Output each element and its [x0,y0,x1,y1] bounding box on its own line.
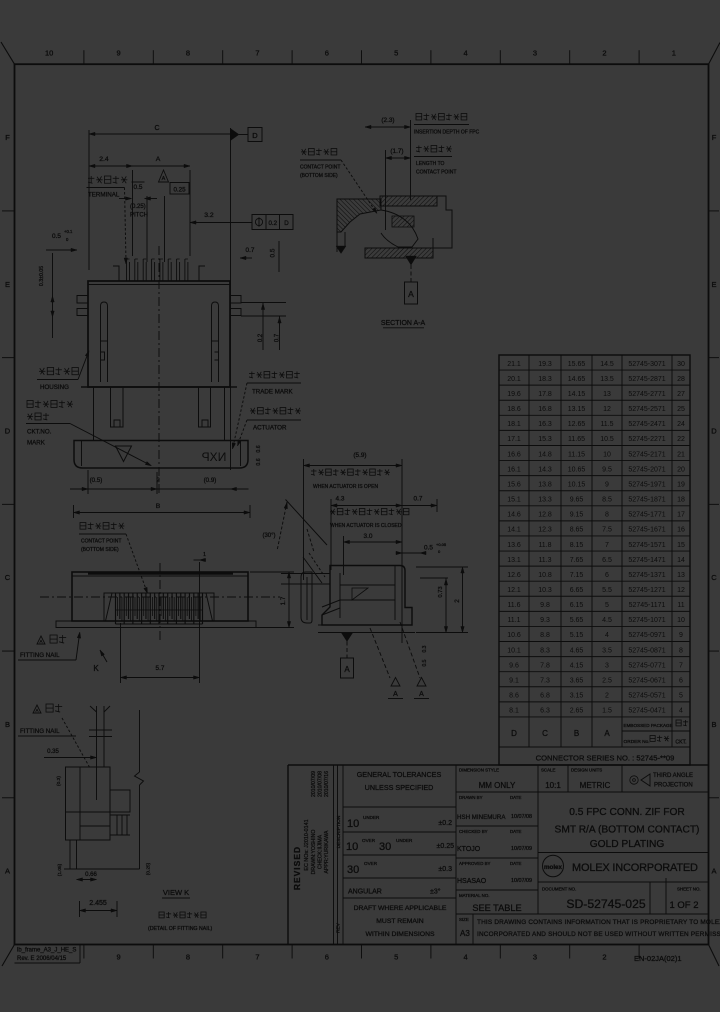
view K right attachment [110,790,130,812]
svg-text:CKT.NO.: CKT.NO. [27,429,52,436]
svg-text:A: A [419,691,424,698]
svg-text:7.8: 7.8 [540,662,550,669]
side section cut arrow [342,633,353,642]
svg-text:0.73: 0.73 [438,586,444,597]
svg-text:D: D [5,426,11,435]
svg-text:EN-02JA(02)1: EN-02JA(02)1 [634,954,682,963]
svg-text:B: B [711,720,716,729]
front view end terminal right [199,266,205,281]
svg-text:10: 10 [346,841,358,853]
svg-text:4: 4 [464,953,468,962]
svg-text:0.3: 0.3 [422,645,428,652]
svg-text:A: A [408,289,414,299]
svg-text:10: 10 [347,818,359,830]
svg-text:10: 10 [603,451,611,458]
svg-text:12.1: 12.1 [507,587,521,594]
section contact detail [381,210,418,247]
svg-text:16.8: 16.8 [538,406,552,413]
svg-text:14.1: 14.1 [507,527,521,534]
svg-text:SIZE: SIZE [459,917,469,922]
datum feature triangle A [159,170,169,182]
svg-text:8.1: 8.1 [509,708,519,715]
svg-text:0.7: 0.7 [414,496,423,503]
svg-text:A3: A3 [460,929,470,938]
bottom view mounting strip [72,627,248,629]
svg-text:DATE: DATE [510,861,521,866]
svg-text:6.8: 6.8 [540,693,550,700]
svg-text:A: A [604,729,610,738]
svg-text:METRIC: METRIC [580,781,611,790]
svg-text:DESCRIPTION: DESCRIPTION [336,815,342,848]
svg-text:52745-1671: 52745-1671 [628,527,665,534]
svg-text:5.5: 5.5 [602,587,612,594]
svg-text:21.1: 21.1 [507,361,521,368]
svg-text:30: 30 [347,864,359,876]
svg-text:10.8: 10.8 [538,572,552,579]
svg-text:INCORPORATED AND SHOULD NOT BE: INCORPORATED AND SHOULD NOT BE USED WITH… [477,931,720,938]
svg-text:11.3: 11.3 [538,557,551,564]
front view leg right [199,387,211,427]
view K japanese note [159,912,164,918]
svg-text:2010/07/08: 2010/07/08 [318,771,324,797]
front view actuator plate [74,441,248,469]
svg-text:13.3: 13.3 [538,497,552,504]
svg-text:2010/07/09: 2010/07/09 [311,771,317,797]
svg-text:5.65: 5.65 [570,617,584,624]
svg-text:8.5: 8.5 [602,497,612,504]
svg-text:12.65: 12.65 [568,421,586,428]
svg-text:UNLESS SPECIFIED: UNLESS SPECIFIED [365,783,434,792]
svg-text:B: B [156,503,161,510]
svg-text:16.6: 16.6 [507,451,521,458]
svg-text:C: C [711,573,717,582]
svg-text:+0.05: +0.05 [436,542,447,547]
pitch extension lines [146,196,148,262]
svg-text:INSERTION DEPTH OF FPC: INSERTION DEPTH OF FPC [414,130,480,136]
svg-text:DRAWN:YOSHINO: DRAWN:YOSHINO [311,830,317,875]
svg-text:8.65: 8.65 [570,527,584,534]
svg-text:19: 19 [677,481,685,488]
svg-text:28: 28 [677,376,685,383]
svg-text:3.2: 3.2 [204,212,214,219]
svg-text:10.6: 10.6 [507,632,521,639]
left zone ticks [2,210,15,212]
front view pb-free triangle mark [116,446,132,462]
svg-text:1 OF 2: 1 OF 2 [669,900,698,911]
svg-text:52745-2571: 52745-2571 [628,406,665,413]
svg-text:7.5: 7.5 [602,527,612,534]
svg-text:9.5: 9.5 [602,466,612,473]
side view body outline [322,566,412,626]
svg-text:18: 18 [677,497,685,504]
svg-text:16.3: 16.3 [538,421,552,428]
svg-text:52745-1871: 52745-1871 [628,497,665,504]
svg-text:DATE: DATE [510,829,521,834]
front view side tab right upper [230,296,241,304]
svg-text:CKT.: CKT. [675,740,686,746]
svg-text:15.3: 15.3 [538,436,552,443]
svg-text:52745-0871: 52745-0871 [628,647,665,654]
svg-text:9.6: 9.6 [509,662,519,669]
svg-text:5: 5 [605,602,609,609]
svg-text:±0.25: ±0.25 [437,843,455,850]
svg-text:14.65: 14.65 [568,376,586,383]
datum D arrow flag [231,129,240,141]
svg-text:8.8: 8.8 [540,632,550,639]
svg-text:0.2: 0.2 [258,333,264,342]
svg-text:A: A [344,665,350,674]
svg-text:CHECKED BY: CHECKED BY [459,829,488,834]
svg-text:EC NOs: J2010-0141: EC NOs: J2010-0141 [304,819,310,870]
svg-text:MARK: MARK [27,440,46,447]
svg-text:1: 1 [672,49,676,58]
svg-text:1.5: 1.5 [602,708,612,715]
svg-text:30: 30 [677,361,685,368]
svg-text:52745-1571: 52745-1571 [628,542,665,549]
svg-text:9.3: 9.3 [540,617,550,624]
svg-text:HSASAO: HSASAO [457,878,487,885]
svg-text:FITTING NAIL: FITTING NAIL [20,728,60,735]
svg-text:8: 8 [186,49,190,58]
svg-text:PROJECTION: PROJECTION [654,783,693,789]
svg-text:8: 8 [605,512,609,519]
svg-text:14.5: 14.5 [600,361,614,368]
svg-text:16: 16 [677,527,685,534]
svg-text:6: 6 [679,678,683,685]
svg-text:CHECK:IIJIMA: CHECK:IIJIMA [318,834,324,869]
section body left block hatched [337,199,381,232]
svg-text:OVER: OVER [362,838,376,843]
svg-text:DESIGN UNITS: DESIGN UNITS [571,768,602,773]
front view end terminal left [113,266,119,281]
svg-text:3.5: 3.5 [602,647,612,654]
datum target A right [400,622,420,678]
svg-text:20.1: 20.1 [507,376,521,383]
dimension A [189,170,191,256]
svg-text:HSH MINEMURA: HSH MINEMURA [457,814,506,821]
svg-text:17.8: 17.8 [538,391,552,398]
svg-text:KTOJO: KTOJO [457,846,481,853]
svg-text:F: F [5,133,10,142]
svg-text:E: E [5,280,10,289]
svg-text:4: 4 [464,49,468,58]
svg-text:ORDER No.: ORDER No. [624,739,650,745]
svg-text:DRAWN BY: DRAWN BY [459,795,483,800]
svg-text:(DETAIL OF FITTING NAIL): (DETAIL OF FITTING NAIL) [148,926,213,932]
fitting nail label upper [37,636,45,644]
svg-text:52745-2471: 52745-2471 [628,421,665,428]
svg-text:5: 5 [394,49,398,58]
svg-text:EMBOSSED PACKAGE: EMBOSSED PACKAGE [624,723,673,728]
svg-text:SEE TABLE: SEE TABLE [472,903,521,913]
svg-text:(0.25): (0.25) [130,204,146,210]
right tab extension lines [241,302,286,304]
svg-text:WHEN ACTUATOR IS OPEN: WHEN ACTUATOR IS OPEN [313,484,378,490]
svg-text:8.6: 8.6 [509,693,519,700]
svg-text:7: 7 [255,953,259,962]
svg-text:4.3: 4.3 [336,496,345,503]
section body top bar hatched [380,196,437,206]
bottom view body [72,572,248,621]
svg-text:0.7: 0.7 [246,247,255,254]
view K boundary line with break [139,710,141,772]
svg-text:2.65: 2.65 [570,708,584,715]
contact point bottom side label [302,149,306,155]
svg-text:14.8: 14.8 [538,451,552,458]
svg-text:0.3±0.05: 0.3±0.05 [39,266,45,286]
bottom view terminal comb [116,592,203,594]
actuator label [251,408,255,414]
svg-text:52745-1971: 52745-1971 [628,481,665,488]
svg-text:A: A [39,639,42,644]
svg-text:10: 10 [45,49,53,58]
svg-text:MUST REMAIN: MUST REMAIN [376,918,424,925]
svg-text:DIMENSION STYLE: DIMENSION STYLE [459,768,499,773]
svg-text:14.3: 14.3 [538,466,552,473]
svg-text:GENERAL TOLERANCES: GENERAL TOLERANCES [357,770,442,779]
svg-text:CONTACT POINT: CONTACT POINT [416,170,456,176]
svg-text:6: 6 [325,49,329,58]
front view inner slot right [212,302,219,382]
fpc insertion depth label [416,114,422,120]
svg-text:0.2: 0.2 [268,220,277,227]
svg-text:8.15: 8.15 [570,542,584,549]
corner trim mark top-right [709,43,720,65]
svg-text:3: 3 [533,953,537,962]
svg-text:2010/07/16: 2010/07/16 [324,771,330,797]
side view foot lines [318,632,415,634]
svg-text:DOCUMENT NO.: DOCUMENT NO. [542,887,576,892]
view K nail body [66,767,111,840]
svg-text:24: 24 [677,421,685,428]
svg-text:4: 4 [679,708,683,715]
svg-text:B: B [574,729,579,738]
svg-text:CONNECTOR SERIES NO. : 52745-*: CONNECTOR SERIES NO. : 52745-**09 [536,754,675,763]
svg-text:2: 2 [454,599,461,603]
svg-text:1: 1 [203,552,206,558]
svg-text:SD-52745-025: SD-52745-025 [566,897,645,911]
title block outline [288,764,709,766]
svg-text:11.8: 11.8 [538,542,551,549]
svg-text:7: 7 [679,662,683,669]
svg-text:52745-1071: 52745-1071 [628,617,665,624]
svg-text:13: 13 [603,391,611,398]
svg-text:52745-3071: 52745-3071 [628,361,665,368]
svg-text:0.5: 0.5 [424,545,433,552]
svg-text:C: C [542,729,548,738]
svg-text:6.5: 6.5 [602,557,612,564]
svg-text:(5.9): (5.9) [353,452,366,459]
svg-text:52745-1371: 52745-1371 [628,572,665,579]
svg-text:TERMINAL: TERMINAL [88,192,120,199]
svg-text:WITHIN DIMENSIONS: WITHIN DIMENSIONS [365,931,435,938]
svg-text:11.5: 11.5 [600,421,613,428]
svg-text:6: 6 [605,572,609,579]
svg-text:14: 14 [677,557,685,564]
svg-text:10/07/08: 10/07/08 [511,814,532,820]
svg-text:(BOTTOM SIDE): (BOTTOM SIDE) [81,547,119,553]
front view top terminals [126,259,128,281]
terminal label [90,176,92,183]
svg-text:(2.3): (2.3) [381,117,394,124]
section cut arrow bottom [406,256,417,265]
corner trim mark top-left [1,42,15,64]
dimension 0.7 rotated right [279,316,281,350]
svg-text:15.65: 15.65 [568,361,586,368]
svg-text:10.1: 10.1 [507,647,521,654]
svg-text:20: 20 [677,466,685,473]
parts table outer border [499,355,690,765]
svg-text:CONTACT POINT: CONTACT POINT [81,539,121,545]
dimension 0.2 rotated right [262,303,264,351]
svg-text:±0.2: ±0.2 [438,820,452,827]
pitch arrows [119,198,132,200]
svg-text:±3°: ±3° [430,888,441,896]
svg-text:OVER: OVER [364,861,378,866]
svg-text:(1.7): (1.7) [390,148,403,155]
svg-text:18.6: 18.6 [507,406,521,413]
svg-text:52745-0771: 52745-0771 [628,662,665,669]
svg-text:LENGTH TO: LENGTH TO [416,161,445,167]
top zone ticks [83,50,85,64]
svg-text:12.6: 12.6 [507,572,521,579]
svg-text:15.1: 15.1 [507,497,521,504]
dimension 0.25 boxed [170,183,189,195]
side view actuator open phantom [303,557,322,583]
svg-text:15.6: 15.6 [507,481,521,488]
svg-text:9: 9 [117,49,121,58]
side view fpc tail [281,573,330,575]
svg-text:10:1: 10:1 [545,781,561,790]
svg-text:11.65: 11.65 [568,436,585,443]
svg-text:4.65: 4.65 [570,647,584,654]
svg-text:A: A [162,176,166,182]
fitting nail label lower [33,705,41,713]
svg-text:ANGULAR: ANGULAR [348,889,382,896]
svg-text:10: 10 [677,617,685,624]
svg-text:0.6: 0.6 [256,458,262,465]
actuator closed note [331,509,335,515]
svg-text:5.7: 5.7 [156,665,165,672]
svg-text:0.5: 0.5 [270,248,277,257]
frame format label box bottom-left [15,962,81,964]
section body bottom bar hatched [365,248,433,258]
svg-text:9.65: 9.65 [570,497,584,504]
svg-text:17: 17 [677,512,685,519]
svg-text:SCALE: SCALE [541,768,555,773]
svg-text:7: 7 [605,542,609,549]
svg-text:MOLEX INCORPORATED: MOLEX INCORPORATED [572,862,698,874]
corner trim mark bottom-left [2,945,15,967]
svg-text:7.15: 7.15 [570,572,584,579]
third angle projection symbol [630,776,638,784]
svg-text:NXP: NXP [202,450,227,464]
svg-text:9: 9 [679,632,683,639]
svg-text:15: 15 [677,542,685,549]
svg-text:8.3: 8.3 [540,647,550,654]
bottom zone ticks [83,945,85,959]
svg-text:52745-0671: 52745-0671 [628,678,665,685]
svg-text:2.455: 2.455 [89,900,107,907]
contact point label above bottom view [80,523,86,530]
svg-text:10.15: 10.15 [568,481,586,488]
svg-text:5: 5 [679,693,683,700]
svg-text:C: C [5,573,11,582]
parts table column lines [528,355,530,747]
svg-text:D: D [511,729,517,738]
svg-text:molex: molex [544,864,562,871]
svg-text:A: A [393,691,398,698]
svg-text:13.1: 13.1 [507,557,521,564]
svg-text:(0.5): (0.5) [90,477,103,484]
svg-text:13.5: 13.5 [600,376,614,383]
dimension C [88,130,90,270]
svg-text:17.1: 17.1 [507,436,521,443]
svg-text:18.3: 18.3 [538,376,552,383]
svg-text:0.5: 0.5 [134,184,143,191]
svg-text:F: F [712,133,717,142]
title block vertical dividers [342,765,344,945]
view K nail stem [96,706,98,767]
svg-text:3.0: 3.0 [364,533,373,540]
bottom view lower dimension [120,623,122,683]
front view inner slot left [101,302,108,382]
svg-text:9: 9 [117,953,121,962]
svg-text:VIEW K: VIEW K [163,888,189,897]
svg-text:K: K [93,664,99,673]
svg-text:REVISED: REVISED [292,846,302,890]
svg-text:9: 9 [605,481,609,488]
view K feet [69,840,71,869]
svg-text:14.6: 14.6 [507,512,521,519]
dimension 2.4 [132,170,134,256]
svg-text:0.5: 0.5 [422,659,428,666]
svg-text:6.65: 6.65 [570,587,584,594]
front view lower flange [81,386,237,388]
svg-text:8: 8 [186,953,190,962]
svg-text:TRADE MARK: TRADE MARK [252,389,293,396]
svg-text:0.66: 0.66 [85,872,97,878]
svg-text:+0.1: +0.1 [64,229,73,234]
svg-text:10.65: 10.65 [568,466,586,473]
svg-text:19.3: 19.3 [538,361,552,368]
svg-text:SMT R/A (BOTTOM CONTACT): SMT R/A (BOTTOM CONTACT) [555,825,700,836]
svg-text:52745-1471: 52745-1471 [628,557,665,564]
svg-text:E: E [711,280,716,289]
svg-text:25: 25 [677,406,685,413]
revision strip inner lines [333,765,335,945]
molex logo [543,855,564,877]
front view housing body [88,281,230,387]
svg-text:0.5: 0.5 [52,233,61,240]
svg-text:6.3: 6.3 [540,708,550,715]
parts table row lines [499,369,690,371]
svg-text:0.5 FPC CONN. ZIF FOR: 0.5 FPC CONN. ZIF FOR [569,807,684,818]
housing label [40,368,45,374]
svg-text:CONTACT POINT: CONTACT POINT [300,165,340,171]
svg-text:3: 3 [533,49,537,58]
svg-text:30: 30 [379,841,391,853]
svg-text:±0.3: ±0.3 [438,866,452,873]
svg-text:19.6: 19.6 [507,391,521,398]
svg-text:52745-1171: 52745-1171 [629,602,666,609]
svg-text:B: B [5,720,10,729]
svg-text:11.15: 11.15 [568,451,585,458]
side dim 2 rotated [462,567,464,633]
svg-text:5: 5 [394,953,398,962]
svg-text:UNDER: UNDER [363,815,380,820]
svg-text:THIRD ANGLE: THIRD ANGLE [653,773,693,779]
